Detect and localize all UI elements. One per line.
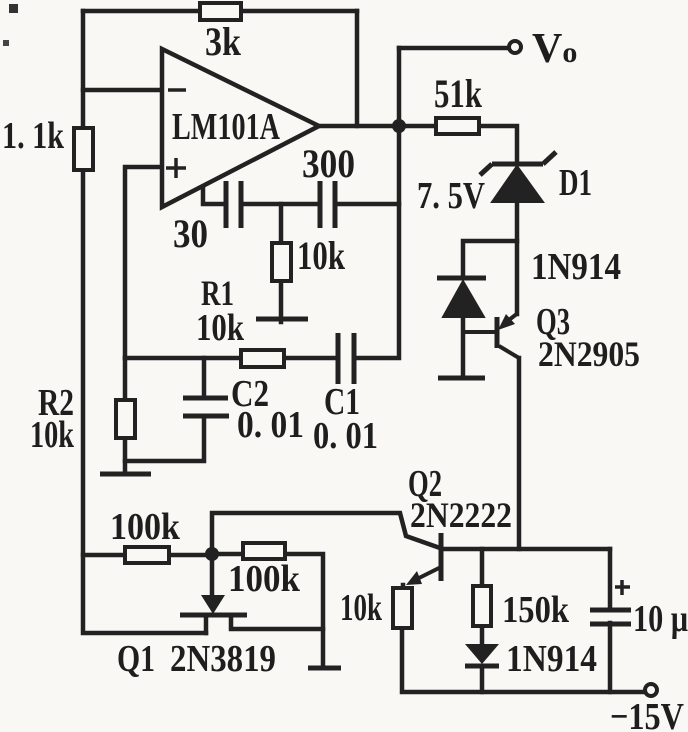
wire junction to Q1 gate — [210, 554, 215, 599]
diode 1N914 bottom — [465, 638, 597, 680]
wire 100k2 row — [216, 552, 243, 557]
wire 10k bottom — [402, 628, 645, 692]
wire inverting input — [83, 88, 161, 93]
wire 300 cap right lead — [335, 202, 399, 207]
svg-text:10k: 10k — [297, 233, 346, 278]
wire branch to 1N914 — [463, 241, 517, 278]
svg-text:LM101A: LM101A — [172, 106, 280, 148]
resistor 1.1k — [2, 115, 93, 170]
wire noninverting input — [125, 167, 161, 358]
wire Q1 source — [204, 617, 209, 633]
svg-text:2N3819: 2N3819 — [170, 638, 276, 680]
wire 51k to D1 rail — [479, 126, 517, 164]
transistor Q3 2N2905 — [463, 301, 640, 374]
wire 1N914 anode lead — [461, 317, 466, 377]
svg-text:51k: 51k — [434, 71, 483, 116]
capacitor C1 0.01 — [313, 333, 378, 457]
capacitor 30 — [173, 181, 241, 256]
wire 30 to 300 caps — [241, 202, 320, 207]
wire 150k to diode — [480, 626, 485, 644]
wire left rail — [83, 11, 206, 633]
wire Q2 collector row — [443, 547, 610, 552]
svg-text:−15V: −15V — [610, 696, 684, 732]
wire right vertical from top to output — [355, 11, 360, 126]
svg-text:1. 1k: 1. 1k — [2, 115, 65, 157]
zener diode D1 7.5V — [417, 152, 592, 217]
resistor R2 10k — [30, 382, 135, 456]
resistor 3k — [200, 3, 242, 64]
svg-text:3k: 3k — [205, 19, 242, 64]
wire 100k2 to right rail — [285, 554, 323, 667]
svg-text:10k: 10k — [196, 307, 245, 349]
wire C2 bottom lead — [125, 417, 204, 461]
svg-text:10k: 10k — [340, 587, 383, 629]
resistor 100k left — [110, 506, 181, 563]
svg-text:150k: 150k — [502, 589, 570, 631]
wire C2 top lead — [202, 358, 207, 397]
svg-text:0. 01: 0. 01 — [237, 404, 304, 446]
wire R2 rail — [123, 358, 128, 472]
svg-text:10k: 10k — [30, 414, 75, 456]
wire Q1 drain — [231, 617, 323, 629]
scan speck left edge — [3, 40, 9, 46]
wire Vo lead — [399, 46, 508, 51]
resistor 51k — [434, 71, 483, 134]
svg-text:1N914: 1N914 — [531, 246, 621, 288]
wire R1 to C1 — [284, 356, 338, 361]
terminal -15V — [645, 684, 657, 696]
wire diode to bottom — [480, 666, 485, 692]
resistor 10k pulldown — [272, 233, 346, 281]
transistor Q2 2N2222 — [406, 463, 512, 585]
wire 10k pulldown — [279, 204, 284, 243]
resistor 150k — [473, 586, 570, 631]
svg-text:10 μ: 10 μ — [633, 598, 688, 640]
ground for 10k pulldown — [256, 317, 308, 322]
resistor 10k emitter — [340, 587, 412, 629]
JFET Q1 2N3819 — [117, 595, 276, 680]
wire 150k top lead — [480, 549, 485, 586]
svg-text:D1: D1 — [559, 162, 592, 204]
scan speck top-left — [9, 4, 18, 13]
ground for Q1 — [308, 666, 341, 671]
svg-text:300: 300 — [302, 141, 355, 186]
capacitor 300 — [302, 141, 355, 228]
op-amp U1 LM101A — [162, 49, 319, 207]
wire R1 row — [125, 356, 241, 361]
node junction 100k — [205, 547, 219, 561]
wire 100k to junction — [169, 553, 212, 558]
wire Q2 emitter to 10k — [401, 585, 406, 588]
wire op-amp output — [319, 124, 436, 129]
svg-text:30: 30 — [173, 211, 208, 256]
wire 10u bottom lead — [608, 623, 613, 692]
ground for R2 — [100, 472, 151, 477]
resistor 100k right — [228, 543, 301, 600]
svg-text:1N914: 1N914 — [506, 638, 597, 680]
wire output node vertical — [356, 48, 399, 358]
wire D1 to Q3 emitter rail — [515, 202, 520, 314]
wire top feedback — [83, 9, 357, 14]
wire 10u top lead — [608, 549, 613, 609]
wire 30 cap stub — [203, 187, 226, 204]
svg-text:2N2222: 2N2222 — [410, 495, 512, 535]
wire 10k to ground — [279, 281, 284, 322]
resistor R1 10k — [196, 273, 284, 367]
wire Q3 collector rail — [517, 358, 522, 549]
diode 1N914 middle — [437, 246, 621, 378]
svg-text:Q1: Q1 — [117, 638, 155, 680]
capacitor 10u polarized — [590, 580, 688, 640]
svg-text:100k: 100k — [228, 558, 301, 600]
terminal Vo — [509, 41, 521, 53]
node output junction — [392, 119, 406, 133]
wire junction to Q2 base — [212, 513, 440, 554]
wire 100k row left — [83, 553, 125, 558]
svg-text:7. 5V: 7. 5V — [417, 175, 485, 217]
svg-text:100k: 100k — [110, 506, 181, 548]
svg-text:0. 01: 0. 01 — [313, 415, 378, 457]
capacitor C2 0.01 — [183, 373, 304, 446]
svg-text:2N2905: 2N2905 — [538, 334, 640, 374]
